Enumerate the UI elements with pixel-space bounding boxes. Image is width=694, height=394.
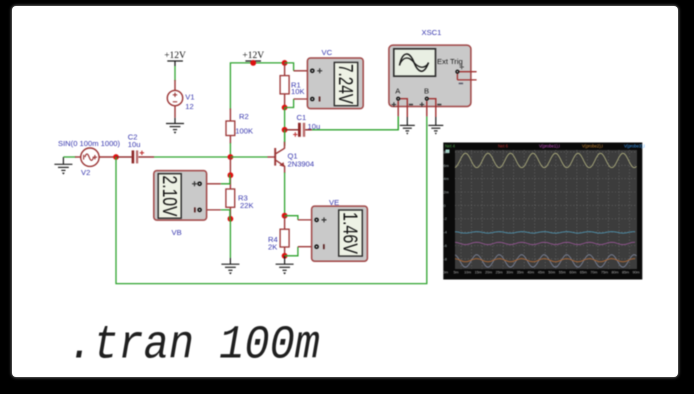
svg-text:40m: 40m	[527, 270, 534, 274]
svg-text:20m: 20m	[485, 270, 492, 274]
svg-text:12: 12	[185, 102, 193, 111]
svg-text:V1: V1	[185, 92, 194, 101]
oscilloscope XSC1 icon	[389, 45, 471, 106]
node junction R1 top	[282, 60, 288, 66]
waveform magenta trace	[455, 242, 635, 244]
svg-text:100K: 100K	[235, 126, 253, 135]
ground G1 (input source)	[54, 157, 72, 175]
wire R3 to ground	[229, 219, 231, 258]
svg-text:5m: 5m	[454, 270, 459, 274]
svg-text:60m: 60m	[569, 270, 576, 274]
label 10u (C2)	[128, 140, 141, 149]
source V2 sine input	[75, 148, 116, 166]
label R2	[239, 112, 249, 121]
svg-text:-6: -6	[444, 244, 447, 248]
svg-text:50m: 50m	[548, 270, 555, 274]
svg-text:7.24V: 7.24V	[334, 64, 356, 105]
svg-text:45m: 45m	[538, 270, 545, 274]
svg-text:65m: 65m	[580, 270, 587, 274]
wire VB+ tap	[221, 175, 231, 184]
wire R2 to base node	[229, 143, 231, 157]
svg-text:2.10V: 2.10V	[158, 176, 180, 218]
label Ext Trig	[437, 57, 463, 66]
svg-text:25m: 25m	[496, 270, 503, 274]
svg-text:C1: C1	[297, 113, 307, 122]
svg-text:4m: 4m	[444, 177, 449, 181]
waveform cyan trace	[455, 232, 635, 234]
power +12V symbol (V1)	[164, 51, 186, 66]
node junction R3 bottom / VB-	[228, 216, 234, 222]
node junction R3 top / VB+	[228, 172, 234, 178]
node junction V2/C2/scope-B	[113, 154, 119, 160]
label VE	[329, 198, 339, 207]
svg-text:8m: 8m	[444, 150, 449, 154]
svg-text:V(probe2),I: V(probe2),I	[582, 144, 603, 149]
ext trig terminal	[455, 65, 476, 84]
wire +12V rail	[230, 63, 284, 110]
label 2K (R4)	[268, 243, 277, 252]
label R3	[238, 193, 248, 202]
svg-text:-8: -8	[444, 257, 447, 261]
svg-text:80m: 80m	[612, 270, 619, 274]
svg-text:-2: -2	[444, 217, 447, 221]
ground G4 (under R4)	[276, 256, 294, 275]
svg-text:10u: 10u	[128, 140, 141, 149]
label 10K (R1)	[291, 87, 305, 96]
transistor Q1 2N3904	[268, 142, 285, 174]
svg-text:22K: 22K	[240, 201, 254, 210]
waveform output (khaki)	[455, 153, 637, 167]
power +12V symbol (rail)	[242, 51, 264, 62]
svg-text:35m: 35m	[517, 270, 524, 274]
label 2N3904	[288, 159, 315, 168]
node junction +12V tap	[250, 60, 256, 66]
label Q1	[288, 152, 298, 161]
wire ground to V2	[63, 156, 76, 158]
svg-text:V(probe3),I: V(probe3),I	[624, 144, 645, 149]
svg-text:SIN(0 100m 1000): SIN(0 100m 1000)	[58, 139, 121, 148]
wire +12V to V1	[174, 66, 176, 81]
svg-text:.tran 100m: .tran 100m	[68, 320, 320, 373]
ground G5 (scope A minus)	[400, 117, 415, 135]
wire R1 bottom to collector node	[284, 108, 286, 147]
svg-text:XSC1: XSC1	[422, 28, 442, 37]
voltmeter VB	[154, 171, 221, 221]
label C1	[297, 113, 307, 122]
label 100K (R2)	[235, 126, 253, 135]
ground G3 (under R3)	[221, 258, 239, 275]
label VB	[172, 228, 182, 237]
wire VC- tap	[285, 99, 294, 108]
svg-text:+12V: +12V	[164, 51, 186, 61]
grapher legend	[445, 144, 645, 154]
wire VC+ tap	[285, 63, 294, 71]
svg-text:15m: 15m	[475, 270, 482, 274]
node junction R1 bottom / VC-	[282, 105, 288, 111]
svg-text:6m: 6m	[444, 164, 449, 168]
label R4	[268, 235, 278, 244]
label V1	[185, 92, 194, 101]
label VC	[322, 48, 333, 57]
wire VE- tap	[285, 247, 298, 256]
waveform input (gray)	[455, 255, 637, 268]
svg-text:85m: 85m	[622, 270, 629, 274]
svg-text:0m: 0m	[443, 270, 448, 274]
svg-text:90m: 90m	[633, 270, 640, 274]
svg-text:V(probe1),I: V(probe1),I	[539, 144, 560, 149]
svg-text:10m: 10m	[464, 270, 471, 274]
svg-text:V2: V2	[81, 168, 90, 177]
wire emitter to node	[284, 173, 286, 216]
channel B terminal	[420, 97, 442, 117]
annotation .tran 100m	[68, 320, 320, 373]
wire A lead	[397, 116, 399, 129]
wire scope channel B net	[116, 116, 427, 283]
svg-text:75m: 75m	[601, 270, 608, 274]
svg-text:R2: R2	[239, 112, 249, 121]
label XSC1	[422, 28, 442, 37]
svg-text:55m: 55m	[559, 270, 566, 274]
wire C2 to base node	[154, 156, 230, 158]
svg-text:Ext Trig: Ext Trig	[437, 57, 463, 66]
grapher panel background	[443, 143, 642, 280]
ground G2 (under V1)	[166, 118, 184, 134]
svg-text:Net 6: Net 6	[498, 144, 509, 149]
svg-text:0: 0	[444, 204, 446, 208]
label C2	[128, 133, 138, 142]
voltmeter VC	[294, 58, 364, 109]
svg-text:2m: 2m	[444, 191, 449, 195]
grapher grid	[455, 150, 637, 269]
svg-text:VC: VC	[322, 48, 333, 57]
svg-text:+12V: +12V	[242, 51, 264, 61]
label B	[424, 87, 429, 96]
resistor R1	[280, 63, 289, 108]
capacitor C1	[285, 123, 312, 137]
svg-text:70m: 70m	[590, 270, 597, 274]
resistor R2	[226, 109, 235, 144]
voltmeter VE	[298, 206, 368, 261]
capacitor C2	[116, 150, 154, 163]
ground G6 (scope B minus)	[428, 117, 443, 135]
source V1 12V	[167, 80, 182, 118]
node junction C1 / collector	[282, 127, 288, 133]
node junction base	[228, 154, 234, 160]
svg-text:1.46V: 1.46V	[339, 212, 361, 255]
resistor R4	[280, 216, 289, 256]
label R1	[291, 80, 301, 89]
waveform orange ripple	[455, 259, 635, 262]
svg-text:30m: 30m	[506, 270, 513, 274]
label SIN(0 100m 1000)	[58, 139, 121, 148]
svg-text:10K: 10K	[291, 87, 305, 96]
node junction emitter	[282, 213, 288, 219]
label A	[395, 87, 401, 96]
label V2	[81, 168, 90, 177]
svg-text:2K: 2K	[268, 243, 277, 252]
wire base node to Q1	[230, 156, 267, 158]
svg-text:B: B	[424, 87, 429, 96]
svg-text:Net 4: Net 4	[445, 144, 456, 149]
svg-text:2N3904: 2N3904	[288, 159, 315, 168]
label 10u (C1)	[308, 122, 321, 131]
label 22K (R3)	[240, 201, 254, 210]
node junction R4 bottom / VE-	[282, 253, 288, 259]
label 12 (V1)	[185, 102, 193, 111]
svg-text:VB: VB	[172, 228, 182, 237]
resistor R3	[226, 157, 235, 219]
wire VB- tap	[221, 210, 231, 219]
grapher axis labels	[443, 150, 640, 274]
svg-text:-4: -4	[444, 231, 447, 235]
channel A terminal	[392, 97, 413, 117]
wire VE+ tap	[285, 216, 298, 220]
svg-text:VE: VE	[329, 198, 339, 207]
wire collector	[284, 130, 286, 142]
wire C1 to scope channel A	[312, 116, 398, 129]
